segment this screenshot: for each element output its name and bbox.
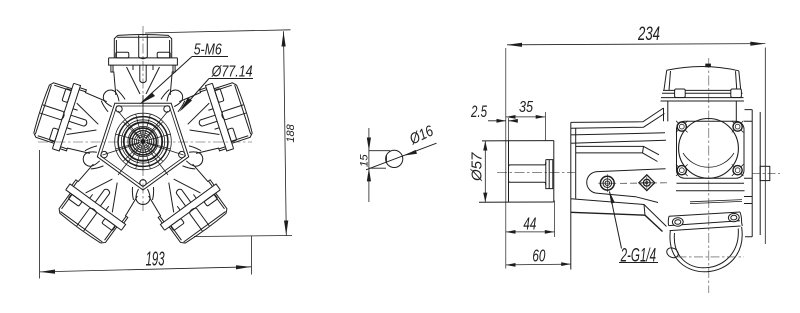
- svg-text:2-G1/4: 2-G1/4: [620, 246, 656, 267]
- dim 234: [507, 44, 765, 244]
- plate bolt upper-left: [676, 121, 688, 133]
- cylinder right (18°): [177, 76, 256, 160]
- svg-text:Ø77.14: Ø77.14: [211, 64, 253, 81]
- center concentric circles: [115, 113, 172, 170]
- svg-text:193: 193: [146, 248, 165, 270]
- diamond port: [639, 175, 655, 191]
- svg-text:35: 35: [519, 99, 533, 116]
- body face plates: [571, 122, 576, 269]
- dim 193 bottom: [40, 150, 252, 279]
- pentagon hub: [97, 103, 188, 190]
- dim 188 right: [145, 30, 292, 237]
- extra hub spokes: [103, 102, 182, 181]
- body outline bottom: [571, 199, 667, 232]
- dash line through ports: [620, 182, 668, 185]
- plate bolt lower-right: [732, 164, 744, 176]
- plate bolt upper-right: [732, 121, 744, 133]
- label 2-G1/4: [609, 191, 658, 267]
- collar: [546, 160, 553, 189]
- neck step lines below plate: [690, 200, 742, 204]
- funnel lines to plate: [576, 146, 659, 161]
- svg-text:188: 188: [285, 124, 297, 142]
- port bolt 2-G1/4: [598, 174, 616, 192]
- shaft: [509, 162, 546, 185]
- svg-text:15: 15: [359, 154, 371, 167]
- cylinder top (90°): [109, 35, 178, 96]
- keyway flat: [385, 155, 387, 162]
- svg-text:2.5: 2.5: [470, 103, 487, 121]
- vertical axis of cylinders: [708, 58, 710, 293]
- ports pad: [587, 169, 666, 203]
- shaft section circle: [386, 150, 403, 167]
- svg-text:Ø57: Ø57: [468, 152, 485, 182]
- leader Ø16: [366, 143, 437, 170]
- label Ø77.14: [180, 64, 254, 112]
- upper valve plate: [677, 118, 745, 178]
- label 5-M6: [139, 42, 228, 105]
- centerline vertical: [142, 26, 144, 212]
- top cylinder (side): [661, 64, 745, 122]
- step lines below plate: [676, 183, 745, 191]
- right face: [744, 110, 770, 237]
- svg-text:44: 44: [523, 213, 536, 233]
- bottom cylinder flange (tilted): [668, 212, 742, 231]
- radial spokes: [103, 95, 184, 175]
- dim line 15: [368, 128, 370, 202]
- knobs at pentagon vertices: [157, 85, 189, 118]
- svg-text:60: 60: [532, 245, 545, 265]
- centerline horizontal: [38, 141, 252, 143]
- cylinder lower-left (234°): [52, 160, 143, 249]
- cylinder left (162°): [30, 76, 109, 160]
- svg-text:234: 234: [637, 23, 660, 45]
- main centerline: [497, 172, 575, 174]
- body outline top: [571, 108, 666, 143]
- boss Ø57: [479, 118, 554, 202]
- bottom dome cap: [665, 227, 744, 272]
- cylinder lower-right (306°): [143, 160, 234, 249]
- left extension line (234/35/44/60): [505, 48, 507, 269]
- plate bolt lower-left: [676, 164, 688, 176]
